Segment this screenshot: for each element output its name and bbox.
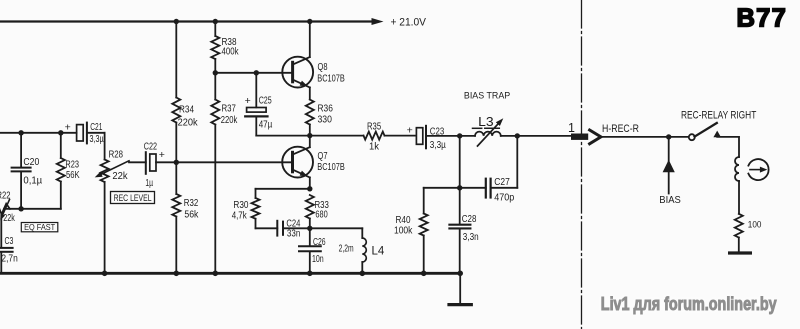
- label R32 value: [184, 198, 199, 221]
- node junction R33/C24/C26/L4: [307, 226, 312, 231]
- label L4 value: [339, 244, 385, 258]
- capacitor C20: [12, 133, 31, 209]
- wire input net top: [0, 132, 77, 134]
- node junction R40/ground-rail: [421, 271, 427, 277]
- resistor R30: [252, 189, 260, 229]
- svg-text:56K: 56K: [66, 170, 80, 181]
- label C20 value: [23, 157, 42, 186]
- label C28 value: [462, 214, 479, 243]
- svg-text:220k: 220k: [178, 117, 199, 128]
- wire L3-left down: [459, 136, 461, 188]
- resistor 100: [735, 214, 743, 252]
- svg-text:400k: 400k: [222, 47, 240, 58]
- svg-text:33n: 33n: [287, 229, 300, 240]
- svg-text:330: 330: [318, 114, 333, 125]
- wire eq-net bottom: [4, 208, 61, 210]
- svg-text:Q8: Q8: [318, 61, 328, 73]
- svg-text:L4: L4: [372, 244, 385, 258]
- node junction R28/ground-rail: [102, 271, 108, 277]
- wire ground rail: [0, 272, 460, 275]
- svg-text:EQ FAST: EQ FAST: [24, 223, 55, 232]
- svg-text:C21: C21: [90, 122, 102, 133]
- resistor R32: [172, 162, 180, 273]
- wire R28 wiper to C22: [129, 161, 146, 163]
- wire Q8 base: [215, 72, 291, 74]
- node junction R40/C27/C28: [457, 185, 462, 190]
- node junction C20 top: [18, 130, 23, 135]
- wire relay to head: [717, 137, 739, 157]
- svg-text:100k: 100k: [394, 225, 413, 236]
- wire node to L4: [310, 227, 363, 229]
- svg-text:C23: C23: [430, 127, 445, 138]
- capacitor C3: [0, 215, 13, 273]
- label R36 value: [318, 104, 334, 126]
- resistor R35: [310, 132, 415, 140]
- capacitor C25: [245, 73, 310, 136]
- svg-text:22k: 22k: [112, 171, 128, 182]
- svg-text:3,3n: 3,3n: [463, 232, 479, 243]
- wire +21V supply rail: [0, 20, 371, 22]
- svg-text:3,3µ: 3,3µ: [430, 140, 446, 151]
- node junction R23 top: [58, 130, 63, 135]
- svg-text:+: +: [245, 95, 251, 107]
- label R34 value: [178, 105, 199, 129]
- svg-text:C20: C20: [23, 157, 39, 168]
- label R40 value: [394, 215, 413, 236]
- node junction BIAS/relay: [666, 134, 671, 139]
- svg-text:R28: R28: [109, 150, 124, 161]
- svg-text:+: +: [65, 121, 71, 133]
- resistor R23: [57, 133, 65, 209]
- potentiometer R22: [0, 200, 10, 221]
- potentiometer R28: [95, 133, 129, 273]
- svg-text:1µ: 1µ: [145, 178, 153, 189]
- svg-text:REC-RELAY RIGHT: REC-RELAY RIGHT: [681, 109, 757, 121]
- ground symbol main: [449, 273, 471, 304]
- wire to rec relay: [601, 136, 689, 138]
- label REC LEVEL box: [111, 192, 155, 204]
- svg-text:BC107B: BC107B: [317, 161, 345, 173]
- inductor L3: [460, 118, 518, 146]
- label H-REC-R: [602, 123, 639, 135]
- label Q8 type: [317, 61, 345, 85]
- resistor R33: [306, 195, 314, 228]
- capacitor C27: [460, 136, 518, 198]
- label B77 title: [737, 5, 788, 33]
- label C27 value: [494, 177, 514, 204]
- capacitor C23: [407, 124, 460, 148]
- wire to R40: [424, 187, 460, 189]
- transistor Q7: [282, 136, 313, 189]
- record head symbol: [748, 159, 768, 180]
- node junction R36/C25/R35/Q7-collector: [307, 133, 312, 138]
- svg-text:C28: C28: [462, 214, 477, 225]
- label BIAS TRAP: [464, 90, 510, 100]
- label C22 value: [144, 142, 158, 189]
- svg-text:BIAS TRAP: BIAS TRAP: [464, 90, 510, 100]
- node junction R37/ground-rail: [213, 271, 219, 277]
- resistor R34: [172, 22, 180, 163]
- inductor L4: [362, 228, 366, 273]
- node junction C25/Q8-base: [254, 70, 259, 75]
- label R35 value: [367, 122, 381, 153]
- svg-text:C3: C3: [5, 236, 14, 247]
- svg-text:L3: L3: [478, 114, 494, 129]
- svg-text:BC107B: BC107B: [317, 73, 345, 85]
- label EQ FAST box: [21, 223, 58, 233]
- svg-text:C22: C22: [144, 142, 158, 153]
- label R28 value: [109, 150, 129, 183]
- svg-text:220k: 220k: [221, 115, 238, 126]
- svg-text:1k: 1k: [369, 142, 380, 153]
- node junction C28/ground-rail: [457, 271, 463, 277]
- svg-text:Liv1 для forum.onliner.by: Liv1 для forum.onliner.by: [601, 293, 777, 314]
- label watermark: [601, 293, 777, 314]
- svg-text:22k: 22k: [3, 213, 15, 224]
- node junction Q7-emitter/R30/R33: [307, 186, 312, 191]
- svg-text:R23: R23: [65, 159, 79, 170]
- switch REC-RELAY contact: [689, 123, 721, 140]
- capacitor C26: [299, 228, 321, 273]
- wire head to R-100: [738, 181, 740, 214]
- label R37 value: [221, 104, 238, 127]
- wire sheet-separator dash-dot line: [581, 0, 583, 329]
- transistor Q8: [282, 22, 313, 100]
- wire L3 to out-arrow: [517, 135, 573, 137]
- label C26 value: [312, 237, 326, 265]
- node out-arrow 1: [571, 130, 601, 144]
- inductor record head coil: [735, 157, 739, 181]
- label C25 value: [259, 96, 273, 131]
- resistor R38: [211, 22, 219, 73]
- node junction Q8-collector/rail: [307, 19, 312, 24]
- svg-text:100: 100: [748, 220, 762, 231]
- resistor R40: [420, 188, 428, 273]
- svg-text:C27: C27: [494, 177, 510, 188]
- node BIAS feed: [663, 137, 675, 194]
- svg-text:680: 680: [315, 209, 328, 220]
- svg-text:56k: 56k: [184, 210, 199, 221]
- svg-text:REC LEVEL: REC LEVEL: [114, 193, 152, 203]
- svg-text:2,2m: 2,2m: [339, 244, 354, 255]
- label C3 value: [1, 236, 17, 264]
- svg-text:C26: C26: [313, 237, 326, 248]
- label REC-RELAY RIGHT: [681, 109, 757, 121]
- node junction L3/C27: [515, 133, 520, 138]
- label BIAS: [659, 194, 681, 206]
- label R33 value: [315, 200, 330, 220]
- node junction C20 bottom: [18, 206, 23, 211]
- node junction C23/L3/C28: [457, 133, 462, 138]
- svg-text:R36: R36: [318, 104, 334, 115]
- ground symbol head: [730, 251, 751, 254]
- svg-text:C25: C25: [259, 96, 272, 107]
- label Q7 type: [317, 150, 345, 173]
- svg-text:R35: R35: [367, 122, 381, 133]
- node +21V arrow / label: [372, 17, 427, 29]
- svg-text:+ 21.0V: + 21.0V: [391, 17, 427, 29]
- svg-text:R22: R22: [0, 190, 11, 201]
- svg-text:47µ: 47µ: [259, 120, 273, 131]
- node junction C26/ground-rail: [307, 271, 313, 277]
- label 100 value: [748, 220, 762, 231]
- svg-text:R34: R34: [179, 105, 194, 116]
- capacitor C28: [449, 188, 470, 273]
- capacitor C21: [65, 121, 105, 143]
- svg-text:R37: R37: [222, 104, 237, 115]
- label R38 value: [222, 37, 240, 58]
- svg-text:H-REC-R: H-REC-R: [602, 123, 639, 135]
- svg-text:2,7n: 2,7n: [1, 253, 17, 264]
- wire emitter to R30: [256, 188, 310, 190]
- svg-text:Q7: Q7: [318, 150, 328, 162]
- svg-text:0,1µ: 0,1µ: [23, 176, 42, 187]
- node junction R32/ground-rail: [174, 271, 180, 277]
- svg-text:470p: 470p: [494, 193, 514, 204]
- capacitor C24: [256, 221, 310, 236]
- label C24 value: [286, 218, 300, 239]
- node junction L4/ground-rail: [360, 271, 366, 277]
- label pin 1: [568, 121, 575, 135]
- wire Q7 base: [176, 161, 291, 163]
- svg-text:4,7k: 4,7k: [232, 210, 248, 221]
- resistor R36: [306, 100, 314, 136]
- svg-text:3,3µ: 3,3µ: [90, 134, 104, 145]
- svg-text:+: +: [159, 149, 165, 161]
- svg-text:1: 1: [568, 121, 575, 135]
- node junction C22/R34/R32: [174, 160, 179, 165]
- svg-text:10n: 10n: [312, 254, 324, 265]
- label R30 value: [232, 200, 249, 221]
- node junction R38/R37/Q8-base: [213, 70, 218, 75]
- label R22 value: [0, 190, 16, 224]
- svg-text:B77: B77: [737, 5, 788, 33]
- label C23 value: [430, 127, 446, 151]
- svg-text:R32: R32: [184, 198, 199, 209]
- capacitor C22: [146, 149, 177, 174]
- node junction R34/rail: [174, 19, 179, 24]
- svg-text:BIAS: BIAS: [659, 194, 681, 206]
- label L3: [478, 114, 494, 129]
- label R23 value: [65, 159, 79, 181]
- node junction R38/rail: [213, 19, 218, 24]
- svg-text:+: +: [407, 124, 413, 136]
- label C21 value: [90, 122, 104, 145]
- resistor R37: [211, 73, 219, 273]
